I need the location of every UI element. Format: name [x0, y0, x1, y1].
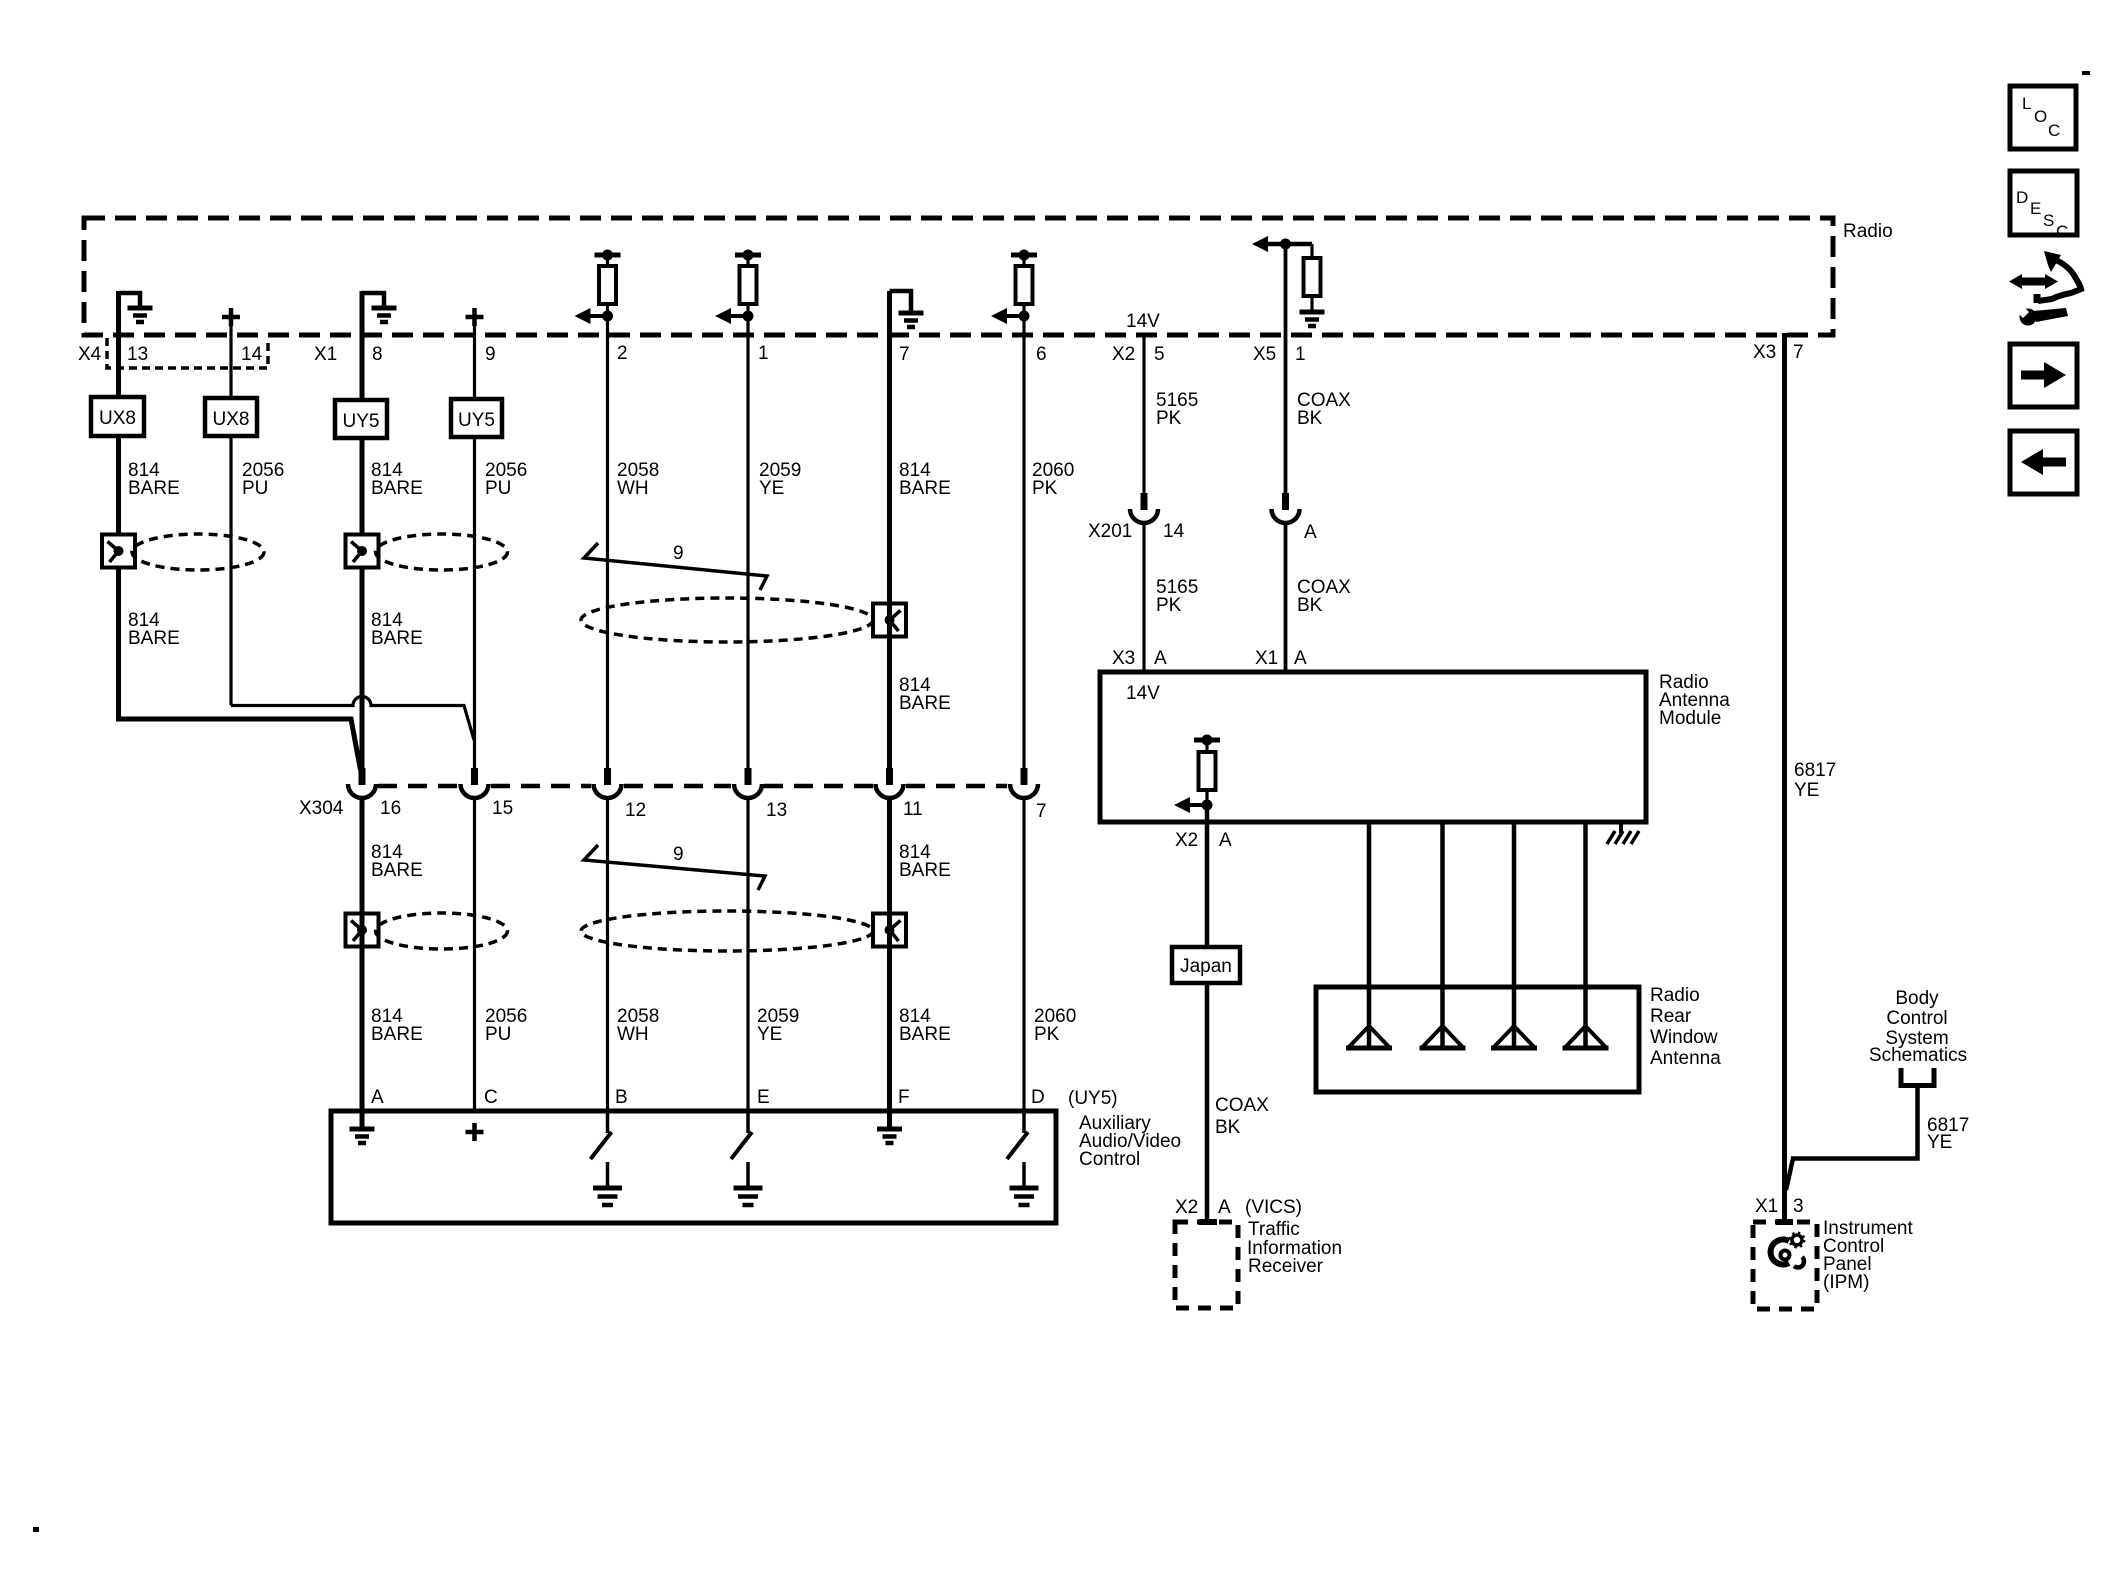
svg-text:9: 9	[673, 844, 684, 865]
off-page bracket to Body Control System Schematics	[1901, 1068, 1934, 1086]
svg-text:Receiver: Receiver	[1248, 1256, 1324, 1277]
svg-text:Japan: Japan	[1180, 956, 1232, 977]
svg-text:X2: X2	[1175, 1197, 1198, 1218]
svg-text:(UY5): (UY5)	[1068, 1088, 1118, 1109]
ground (Radio internal, pin X4-13)	[119, 293, 153, 322]
wire 814 BARE col3 UY5 to splice	[360, 438, 365, 536]
wire 814 BARE col1 UX8 to splice	[116, 436, 121, 536]
wire label col7 mid 814 BARE	[899, 675, 951, 714]
svg-text:X201: X201	[1088, 521, 1132, 542]
wire 6817 YE branch from bracket	[1786, 1086, 1918, 1191]
wire 814 BARE Radio X1-8 to UY5	[360, 291, 365, 401]
svg-text:Module: Module	[1659, 708, 1721, 729]
icon wrench with arrows	[2009, 251, 2081, 326]
connector X304 labels	[299, 798, 1047, 822]
svg-text:E: E	[757, 1087, 770, 1108]
Radio Antenna Module box	[1100, 672, 1730, 822]
option code UX8 box (pin 13)	[91, 397, 144, 436]
svg-text:UX8: UX8	[213, 409, 250, 430]
twisted pair arrow 9 upper	[584, 543, 767, 590]
wire 2056 PU Radio X1-9 to UY5	[473, 326, 476, 400]
svg-text:13: 13	[766, 800, 787, 821]
antenna element 1	[1346, 1026, 1392, 1048]
Body Control System Schematics reference label	[1869, 988, 1967, 1066]
chassis ground (module bottom right)	[1607, 822, 1639, 844]
svg-text:X1: X1	[1255, 648, 1278, 669]
svg-text:A: A	[1219, 830, 1232, 851]
svg-text:3: 3	[1793, 1196, 1804, 1217]
svg-text:6817: 6817	[1794, 760, 1836, 781]
wire 814 BARE Radio X4-13 to UX8	[116, 291, 121, 398]
option code UY5 box (pin 8)	[335, 400, 387, 438]
switch to ground (Aux internal, pin D)	[1007, 1111, 1039, 1205]
svg-text:BARE: BARE	[899, 693, 951, 714]
svg-text:Radio: Radio	[1843, 221, 1893, 242]
svg-text:C: C	[2056, 222, 2068, 241]
svg-text:D: D	[1031, 1087, 1045, 1108]
wire label 6817 YE right side	[1794, 760, 1836, 801]
Auxiliary Audio/Video Control box	[331, 1088, 1181, 1223]
svg-text:7: 7	[899, 344, 910, 365]
module X2-A pin labels	[1175, 830, 1232, 851]
antenna wire 3	[1512, 822, 1517, 1027]
wire label COAX BK (receiver)	[1215, 1095, 1269, 1138]
connector X304 dashed line	[378, 784, 1007, 789]
battery + (Aux internal, pin C)	[466, 1123, 484, 1141]
svg-text:X4: X4	[78, 344, 102, 365]
ground (Aux internal, pin F)	[877, 1111, 902, 1143]
wire 2056 PU X304-15 to Aux C	[473, 798, 476, 1111]
wire 2059 YE X304-13 to Aux E	[746, 798, 749, 1111]
svg-text:YE: YE	[1927, 1132, 1952, 1153]
svg-text:PK: PK	[1032, 478, 1058, 499]
svg-text:PU: PU	[485, 1024, 511, 1045]
svg-text:YE: YE	[759, 478, 784, 499]
svg-text:X3: X3	[1753, 342, 1776, 363]
svg-text:UY5: UY5	[458, 410, 495, 431]
svg-text:B: B	[615, 1087, 628, 1108]
svg-text:PK: PK	[1156, 408, 1182, 429]
wire label COAX BK lower	[1297, 577, 1351, 616]
svg-text:X1: X1	[314, 344, 337, 365]
wire 2056 PU Radio X4-14 to UX8	[229, 326, 232, 399]
svg-text:O: O	[2034, 107, 2047, 126]
wire COAX BK Japan box to Traffic Information Receiver	[1205, 983, 1210, 1222]
svg-text:(VICS): (VICS)	[1245, 1197, 1302, 1218]
svg-text:A: A	[1304, 522, 1317, 543]
svg-text:A: A	[371, 1087, 384, 1108]
svg-text:8: 8	[372, 344, 383, 365]
connector X304 pin 7	[1010, 768, 1038, 798]
wire labels mid run 814 BARE	[128, 610, 423, 649]
svg-text:A: A	[1294, 648, 1307, 669]
battery + (Radio internal, pin X4-14)	[222, 308, 240, 326]
antenna element 4	[1563, 1026, 1609, 1048]
wire label COAX BK upper	[1297, 390, 1351, 429]
svg-text:9: 9	[485, 344, 496, 365]
connector X304 pin 15	[461, 768, 489, 798]
svg-text:X2: X2	[1175, 830, 1198, 851]
svg-text:YE: YE	[757, 1024, 782, 1045]
svg-text:14: 14	[1163, 521, 1185, 542]
svg-text:13: 13	[127, 344, 148, 365]
svg-text:BK: BK	[1297, 408, 1323, 429]
svg-text:BARE: BARE	[371, 1024, 423, 1045]
svg-text:(IPM): (IPM)	[1823, 1272, 1869, 1293]
svg-text:1: 1	[758, 343, 769, 364]
resistor (Radio internal, pin 1)	[715, 250, 761, 325]
Aux pin letter labels	[371, 1087, 1045, 1108]
svg-text:9: 9	[673, 543, 684, 564]
wire label 5165 PK upper	[1156, 390, 1198, 429]
wire 6817 YE Radio X3-7 to IPM X1-3	[1782, 333, 1787, 1222]
svg-text:PU: PU	[242, 478, 268, 499]
connector X304 pin 16	[348, 768, 376, 798]
svg-text:X304: X304	[299, 798, 344, 819]
battery + (Radio internal, pin X1-9)	[466, 308, 484, 326]
svg-text:Traffic: Traffic	[1248, 1219, 1300, 1240]
svg-text:L: L	[2022, 94, 2031, 113]
connector X304 pin 11	[876, 768, 904, 798]
wire 2058 WH X304-12 to Aux B	[606, 798, 609, 1111]
svg-text:Control: Control	[1886, 1008, 1947, 1029]
splice S2 on 814 BARE col3	[346, 535, 379, 568]
connector X304 pin 12	[594, 768, 622, 798]
svg-text:Antenna: Antenna	[1650, 1048, 1721, 1069]
wire 814 BARE col3 lower segment to X304-16	[360, 568, 365, 769]
wire label 814 BARE col F upper	[899, 842, 951, 881]
wire COAX BK X201-A to Antenna Module X1-A	[1284, 523, 1288, 672]
stray mark top right	[2082, 71, 2090, 75]
svg-text:X5: X5	[1253, 344, 1276, 365]
option code UY5 box (pin 9)	[451, 399, 502, 437]
svg-text:BARE: BARE	[128, 478, 180, 499]
connector X304 pin 13	[734, 768, 762, 798]
twisted pair arrow 9 lower	[584, 844, 765, 890]
switch to ground (Aux internal, pin B)	[591, 1111, 623, 1205]
resistor with arrow (module internal, X2-A)	[1174, 735, 1220, 814]
svg-text:X2: X2	[1112, 344, 1135, 365]
svg-text:WH: WH	[617, 1024, 649, 1045]
svg-text:14: 14	[241, 344, 263, 365]
Antenna Module pin labels X3-A X1-A	[1112, 648, 1307, 669]
svg-text:PU: PU	[485, 478, 511, 499]
wire COAX BK Radio X5-1 to X201-A	[1284, 244, 1288, 495]
Radio Rear Window Antenna box	[1316, 985, 1721, 1092]
shield ellipse upper large	[581, 598, 873, 642]
wire label 814 BARE below X304	[371, 842, 423, 881]
svg-text:6: 6	[1036, 344, 1047, 365]
svg-text:A: A	[1218, 1197, 1231, 1218]
svg-text:Window: Window	[1650, 1027, 1718, 1048]
svg-text:BK: BK	[1215, 1117, 1241, 1138]
stray mark bottom left	[33, 1527, 39, 1532]
svg-text:Body: Body	[1895, 988, 1939, 1009]
connector X201 labels	[1088, 521, 1317, 543]
svg-text:C: C	[484, 1087, 498, 1108]
svg-text:COAX: COAX	[1215, 1095, 1269, 1116]
splice S5 on 814 BARE col7	[873, 604, 906, 637]
shield ellipse lower large	[581, 911, 873, 951]
svg-text:Rear: Rear	[1650, 1006, 1692, 1027]
wire 5165 PK X201-14 to Antenna Module X3-A	[1142, 523, 1145, 672]
Japan country box	[1172, 947, 1240, 983]
svg-text:14V: 14V	[1126, 683, 1160, 704]
switch to ground (Aux internal, pin E)	[731, 1111, 763, 1205]
wire 2059 YE Radio pin1 to X304-13	[746, 316, 749, 768]
svg-text:S: S	[2043, 211, 2054, 230]
svg-text:UX8: UX8	[99, 408, 136, 429]
icon arrow right box	[2010, 344, 2077, 407]
connector X4 (dashed outline around pins 13,14)	[107, 338, 268, 368]
signal arrow and resistor to ground (Radio internal, X5-1)	[1252, 236, 1325, 326]
resistor (Radio internal, pin 6)	[991, 250, 1037, 325]
ground (Radio internal, pin X1-8)	[362, 293, 397, 322]
svg-text:Schematics: Schematics	[1869, 1045, 1967, 1066]
svg-text:D: D	[2016, 188, 2028, 207]
svg-text:7: 7	[1036, 801, 1047, 822]
svg-text:1: 1	[1295, 344, 1306, 365]
wire labels upper run	[128, 460, 1074, 499]
svg-text:BARE: BARE	[128, 628, 180, 649]
svg-text:2: 2	[617, 343, 628, 364]
splice S3 on 814 BARE col A	[346, 914, 379, 947]
svg-text:A: A	[1154, 648, 1167, 669]
svg-text:16: 16	[380, 798, 401, 819]
svg-text:BARE: BARE	[899, 1024, 951, 1045]
wire 2058 WH Radio pin2 to X304-12	[606, 316, 609, 768]
option code UX8 box (pin 14)	[205, 398, 257, 436]
shield ellipse at S2	[376, 534, 508, 570]
svg-text:Radio: Radio	[1650, 985, 1700, 1006]
shield ellipse at S1	[132, 534, 264, 570]
Traffic Information Receiver dashed box	[1175, 1219, 1342, 1308]
antenna wire 4	[1583, 822, 1588, 1027]
svg-text:BK: BK	[1297, 595, 1323, 616]
connector X201 pin A	[1272, 493, 1300, 523]
svg-text:7: 7	[1793, 342, 1804, 363]
svg-text:X1: X1	[1755, 1196, 1778, 1217]
ground (Aux internal, pin A)	[350, 1111, 375, 1143]
svg-text:Control: Control	[1079, 1149, 1140, 1170]
ground (Radio internal, pin 7)	[890, 291, 924, 327]
wire 814 BARE X304-16 to Aux A	[360, 798, 365, 1111]
wire COAX module X2-A to Japan box	[1205, 805, 1210, 947]
antenna wire 1 module to rear window antenna	[1367, 822, 1372, 1027]
svg-text:WH: WH	[617, 478, 649, 499]
wire 814 BARE col1 lower segment and jog to X304-16	[119, 568, 361, 771]
Radio (dashed component box)	[84, 218, 1893, 335]
icon arrow left box	[2010, 431, 2077, 494]
antenna element 2	[1420, 1026, 1466, 1048]
wire 2056 PU col2 jog with hop over col3 to X304-15	[231, 697, 474, 740]
icon DESC box	[2010, 171, 2077, 241]
svg-text:YE: YE	[1794, 780, 1819, 801]
svg-text:UY5: UY5	[343, 411, 380, 432]
wire 2060 PK X304-7 to Aux D	[1022, 798, 1025, 1111]
receiver X2-A pin labels	[1175, 1197, 1302, 1218]
svg-text:X3: X3	[1112, 648, 1135, 669]
splice S4 on 814 BARE col F	[873, 914, 906, 947]
wire 2060 PK Radio pin6 to X304-7	[1022, 316, 1025, 768]
svg-text:C: C	[2048, 121, 2060, 140]
svg-text:F: F	[898, 1087, 910, 1108]
svg-text:5: 5	[1154, 344, 1165, 365]
wire labels lower run	[371, 1006, 1076, 1045]
svg-text:12: 12	[625, 800, 646, 821]
wire label 5165 PK lower	[1156, 577, 1198, 616]
resistor (Radio internal, pin 2)	[575, 250, 621, 325]
svg-text:BARE: BARE	[899, 478, 951, 499]
wire 814 BARE Radio pin7 to X304-11	[887, 291, 892, 768]
svg-text:BARE: BARE	[899, 860, 951, 881]
Instrument Control Panel (IPM) dashed box	[1753, 1218, 1913, 1309]
connector X201 pin 14	[1130, 493, 1158, 523]
wire 2056 PU col4 UY5 down to X304-15	[473, 437, 476, 768]
svg-text:BARE: BARE	[371, 478, 423, 499]
wire label 6817 YE at bracket	[1927, 1115, 1969, 1153]
svg-text:BARE: BARE	[371, 860, 423, 881]
shield ellipse at S3	[376, 913, 508, 949]
svg-text:11: 11	[903, 799, 923, 820]
svg-text:PK: PK	[1156, 595, 1182, 616]
svg-text:14V: 14V	[1126, 311, 1160, 332]
wire 2056 PU col2 UX8 down	[229, 436, 232, 706]
wire 5165 PK Radio X2-5 to X201-14	[1142, 333, 1145, 495]
wire 814 BARE X304-11 to Aux F	[887, 798, 892, 1111]
antenna wire 2	[1440, 822, 1445, 1027]
icon LOC box	[2010, 86, 2076, 149]
pin labels row below Radio box	[78, 342, 1804, 365]
svg-text:E: E	[2030, 199, 2041, 218]
svg-text:BARE: BARE	[371, 628, 423, 649]
splice S1 on 814 BARE col1	[102, 535, 135, 568]
svg-text:PK: PK	[1034, 1024, 1060, 1045]
IPM X1-3 pin labels	[1755, 1196, 1804, 1217]
antenna element 3	[1491, 1026, 1537, 1048]
IPM gauge icon	[1771, 1233, 1805, 1268]
svg-text:15: 15	[492, 798, 513, 819]
